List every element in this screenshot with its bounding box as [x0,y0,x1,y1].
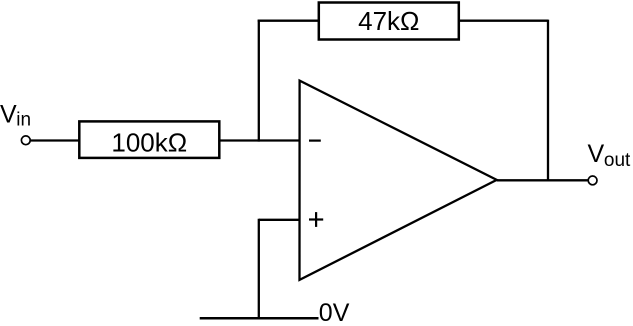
node Vout label [588,140,632,171]
svg-text:out: out [604,150,631,171]
wire Vin to R1 [30,139,80,141]
wire feedback riser left [258,20,260,142]
wire feedback top right [459,20,548,22]
op-amp inverting input sign (minus) [309,140,321,142]
ground 0V rail [200,317,319,320]
op-amp U1 triangle [300,81,497,280]
wire R1 to inverting input [219,139,299,141]
wire feedback drop to output [547,20,549,181]
svg-text:47kΩ: 47kΩ [358,6,419,36]
wire op-amp output [497,179,589,181]
node Vin label [0,100,31,130]
svg-text:in: in [16,109,31,130]
resistor R1 100k box [79,121,219,157]
wire feedback top left [258,20,319,22]
output terminal (open circle) [588,176,597,185]
svg-text:V: V [588,140,605,168]
wire non-inverting to ground [258,219,260,319]
svg-text:100kΩ: 100kΩ [111,127,187,157]
input terminal (open circle) [21,136,30,145]
resistor R2 47k box [319,3,459,40]
svg-text:V: V [0,100,17,128]
wire non-inverting input horizontal [259,219,300,221]
svg-text:0V: 0V [319,299,350,326]
op-amp non-inverting input sign (plus) [309,212,323,227]
